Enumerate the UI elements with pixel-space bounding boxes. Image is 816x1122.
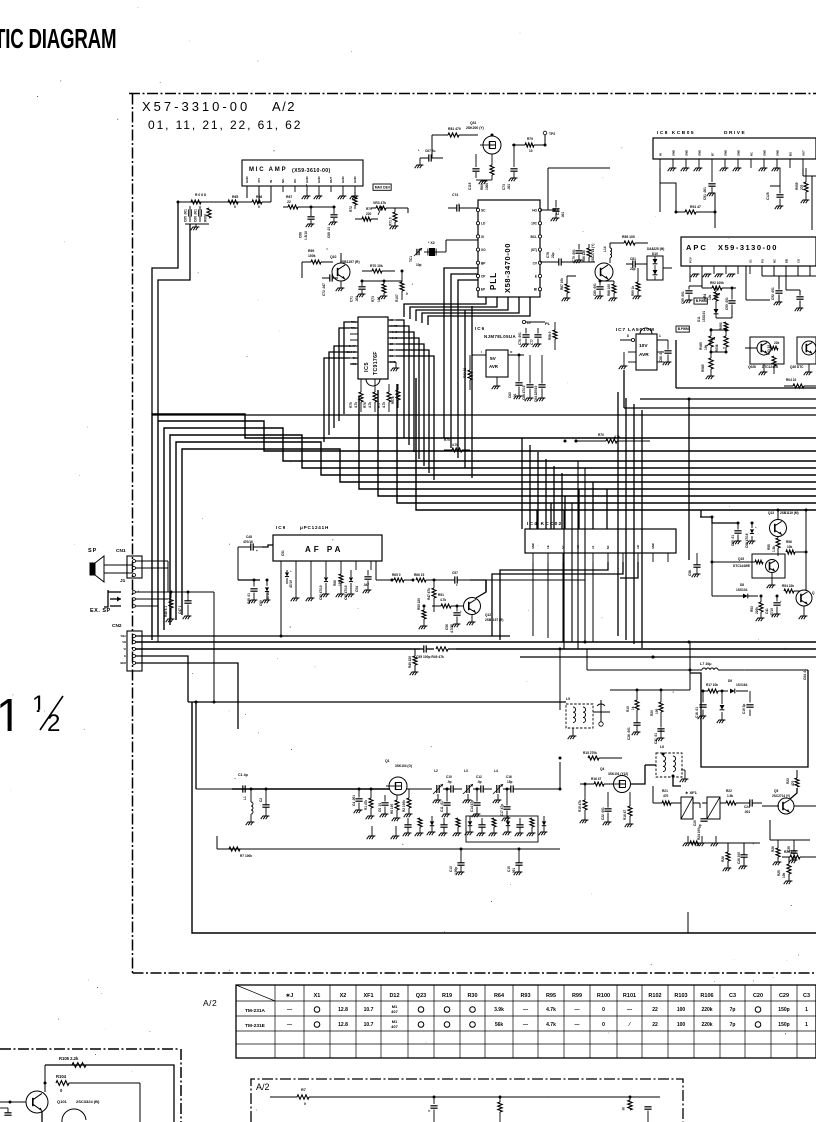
wire IC5 left fan 5: [324, 358, 350, 442]
svg-text:R26: R26: [771, 846, 775, 852]
ground: [354, 192, 356, 196]
svg-text:R75: R75: [349, 402, 353, 408]
svg-text:C64 .01: C64 .01: [803, 669, 807, 680]
svg-text:DTC124EK: DTC124EK: [762, 365, 779, 369]
svg-text:—: —: [287, 1007, 292, 1013]
svg-text:D11: D11: [697, 316, 701, 322]
CN2 pin VI: [133, 648, 136, 651]
wire CN1 out: [136, 560, 169, 562]
diode D9b: [720, 705, 725, 710]
svg-text:R95: R95: [546, 993, 556, 999]
wire IC4 drop dn 5: [592, 562, 594, 642]
svg-text:EN: EN: [353, 356, 357, 360]
svg-text:C55 100p R49 47k: C55 100p R49 47k: [416, 655, 444, 659]
svg-text:AFI: AFI: [636, 545, 640, 549]
wire bus line 8: [378, 390, 816, 496]
wire r26 rail stub: [777, 862, 779, 866]
wire IC7 output rail: [676, 387, 816, 389]
svg-text:C91 .001: C91 .001: [703, 187, 707, 200]
svg-text:3SK104 (O): 3SK104 (O): [395, 764, 412, 768]
svg-text:+: +: [460, 609, 462, 613]
svg-text:GND: GND: [697, 150, 701, 156]
ground: [735, 167, 742, 169]
AF PA pin: [370, 561, 372, 570]
svg-text:.001: .001: [561, 212, 565, 218]
svg-text:—: —: [523, 1007, 528, 1013]
svg-text:220k: 220k: [755, 607, 759, 614]
svg-text:R10: R10: [626, 706, 630, 712]
svg-text:3SK101 (Y12): 3SK101 (Y12): [608, 772, 628, 776]
svg-text:15p: 15p: [507, 780, 512, 784]
wire IC4 riser 2: [550, 503, 552, 529]
svg-text:1SS104: 1SS104: [736, 588, 748, 592]
APC pin 3: [713, 266, 715, 274]
svg-text:DATA: DATA: [349, 344, 356, 348]
svg-text:B7: B7: [710, 152, 714, 156]
wire Q15 base rail: [712, 561, 755, 563]
svg-text:C16: C16: [506, 775, 512, 779]
wire CN2 E: [136, 656, 189, 702]
svg-text:—: —: [575, 1022, 580, 1028]
svg-text:+: +: [290, 569, 292, 573]
ground: [523, 343, 530, 345]
IC5 pin DATA: [350, 345, 358, 347]
wire rf line: [232, 788, 390, 790]
wire IC5 fan 6: [396, 350, 429, 473]
svg-text:.9p: .9p: [447, 780, 452, 784]
svg-text:MIC AMP: MIC AMP: [249, 167, 287, 173]
svg-text:470: 470: [663, 794, 669, 798]
wire IC4 riser 4: [578, 489, 580, 529]
svg-text:R80: R80: [480, 184, 484, 190]
sub-board A/2 outline: [251, 1079, 683, 1122]
svg-text:DRIVE: DRIVE: [724, 130, 746, 136]
wire IC4 riser 6: [606, 489, 608, 529]
ground: [371, 826, 373, 836]
variant table: [236, 985, 816, 1058]
svg-text:R66: R66: [333, 580, 337, 586]
box sub rect: [466, 816, 538, 842]
svg-text:R19: R19: [442, 993, 452, 999]
svg-text:C1 4p: C1 4p: [238, 773, 249, 777]
svg-text:Q15: Q15: [738, 557, 744, 561]
small part 3: [430, 821, 434, 825]
wire Q31 drain: [491, 135, 493, 136]
svg-text:+: +: [755, 525, 757, 529]
svg-text:C68: C68: [299, 232, 303, 238]
wire IC4 riser 5: [592, 482, 594, 529]
svg-text:Q4: Q4: [600, 767, 604, 771]
svg-text:BP: BP: [481, 261, 486, 265]
svg-text:∗J: ∗J: [286, 993, 294, 999]
svg-text:L4: L4: [494, 769, 498, 773]
AF PA pin: [295, 561, 297, 570]
svg-text:SC: SC: [561, 545, 565, 549]
svg-text:0: 0: [234, 205, 236, 209]
IC5 pin VOLD: [388, 331, 396, 333]
wire R7 rail: [270, 1096, 297, 1098]
svg-text:XO: XO: [481, 248, 486, 252]
IC7 body: [636, 334, 657, 370]
svg-text:C56: C56: [445, 624, 449, 630]
CN2 pin BER: [133, 662, 136, 665]
svg-text:C12: C12: [476, 775, 482, 779]
CN2 pin E: [133, 655, 136, 658]
wire bus line 5: [176, 442, 816, 620]
wire pll drop 2: [451, 274, 478, 448]
svg-text:C71: C71: [350, 296, 354, 302]
IC7 input pin: [631, 338, 634, 341]
svg-text:D12: D12: [389, 993, 399, 999]
svg-text:C73: C73: [502, 184, 506, 190]
svg-text:R08 0: R08 0: [548, 331, 552, 340]
ground Q15: [771, 573, 773, 585]
wire IC5 left fan 2: [339, 328, 350, 421]
wire bus to Q13 base: [700, 517, 738, 523]
svg-text:IN: IN: [658, 153, 662, 156]
wire CN2 VBA: [136, 635, 511, 637]
svg-text:C75: C75: [556, 209, 560, 215]
ground: [476, 179, 492, 181]
svg-text:8: 8: [627, 334, 629, 338]
IC5 pin MUTE: [388, 325, 396, 327]
svg-text:10k: 10k: [708, 294, 712, 300]
transistor Q12 2SB1157 (R): [464, 598, 481, 615]
svg-text:R54 22k: R54 22k: [782, 584, 794, 588]
svg-text:TM-231A: TM-231A: [245, 1008, 266, 1014]
table cell: [444, 1007, 450, 1013]
wire bus line 2: [158, 421, 816, 635]
svg-text:0: 0: [304, 1102, 306, 1106]
svg-text:0: 0: [723, 346, 725, 350]
svg-text:AVR: AVR: [639, 352, 649, 358]
wire rf out right: [794, 805, 816, 807]
wire APC PCV: [689, 274, 691, 282]
svg-text:1: 1: [805, 1022, 808, 1028]
wire VR loop: [716, 317, 732, 319]
svg-text:R106: R106: [700, 993, 713, 999]
svg-text:C66 .001: C66 .001: [194, 209, 198, 222]
svg-text:Q10: Q10: [330, 255, 337, 259]
svg-text:1: 1: [32, 691, 45, 718]
small part 8: [492, 818, 496, 827]
svg-text:10C: 10C: [531, 222, 538, 226]
PLL pin (ST): [538, 248, 541, 251]
ground: [670, 167, 677, 169]
svg-text:10.7: 10.7: [364, 1022, 374, 1028]
svg-text:R20: R20: [650, 710, 654, 716]
wire J1 wiring: [136, 591, 215, 593]
svg-text:X1: X1: [314, 993, 321, 999]
wire mic input: [178, 201, 242, 203]
svg-text:C119: C119: [468, 182, 472, 190]
svg-text:R25: R25: [777, 870, 781, 876]
wire x712 rail: [711, 517, 713, 596]
svg-text:VBA: VBA: [121, 634, 127, 638]
svg-text:R04 22: R04 22: [786, 378, 797, 382]
wire IC4 drop 5: [553, 466, 555, 529]
svg-text:C47 1: C47 1: [178, 605, 182, 614]
wire out y580 right: [470, 579, 585, 581]
ground IC7: [623, 352, 625, 366]
svg-text:407: 407: [391, 1009, 398, 1014]
svg-text:R65 0: R65 0: [392, 573, 401, 577]
svg-text:C14 47p: C14 47p: [470, 800, 474, 812]
ground row: [687, 836, 689, 843]
svg-text:LD: LD: [481, 222, 486, 226]
svg-text:C3: C3: [729, 993, 736, 999]
svg-text:C50 47/10: C50 47/10: [344, 585, 348, 600]
svg-text:—: —: [523, 1022, 528, 1028]
wire bundle left-mid verticals: [577, 461, 579, 649]
svg-text:R26 470: R26 470: [784, 850, 796, 854]
svg-text:NC: NC: [606, 545, 610, 549]
IC7 pins left stubs: [628, 351, 636, 353]
wire rail y415: [152, 414, 816, 416]
svg-text:R03 22: R03 22: [767, 345, 771, 355]
IC5 pin VDD: [350, 363, 358, 365]
svg-text:TP2: TP2: [549, 132, 555, 136]
wire rail stub up: [216, 836, 218, 849]
ground: [340, 281, 342, 288]
ground IC6: [496, 377, 498, 386]
svg-text:C72 .047: C72 .047: [322, 283, 326, 296]
CN1 pin: [133, 567, 136, 570]
wire CN2 BER: [136, 663, 239, 729]
svg-text:R24 100: R24 100: [697, 828, 701, 840]
AF PA pin: [310, 561, 312, 570]
svg-text:2SC2714 (Y): 2SC2714 (Y): [772, 794, 790, 798]
svg-text:+: +: [780, 599, 782, 603]
svg-text:R28: R28: [721, 856, 725, 862]
svg-text:D8: D8: [740, 583, 744, 587]
svg-text:47/10: 47/10: [289, 580, 293, 588]
CN1 pin: [133, 560, 136, 563]
svg-text:GND: GND: [736, 150, 740, 156]
svg-text:TM-231E: TM-231E: [245, 1023, 266, 1029]
svg-text:2SK200 (Y): 2SK200 (Y): [466, 126, 484, 130]
wire IC7 out down: [675, 340, 677, 388]
wire antenna line corner: [195, 702, 197, 789]
wire afpa out: [375, 561, 377, 580]
svg-text:4.7k: 4.7k: [452, 443, 458, 447]
svg-text:R107: R107: [395, 294, 399, 302]
svg-text:R1 47k: R1 47k: [364, 800, 368, 810]
svg-text:O1: O1: [748, 259, 752, 263]
svg-text:NC: NC: [749, 152, 753, 156]
svg-text:PLL: PLL: [489, 272, 498, 290]
wire IC8 pin1 down: [659, 168, 661, 212]
CN1 pin: [133, 574, 136, 577]
svg-text:C20: C20: [693, 820, 697, 826]
svg-text:1SS101: 1SS101: [702, 311, 706, 322]
svg-text:R038: R038: [715, 344, 719, 352]
wire Q101 collector: [44, 1065, 46, 1092]
table cell: [755, 1007, 761, 1013]
svg-text:R23: R23: [786, 778, 790, 784]
wire rail y702: [188, 701, 566, 703]
series C55 R49 on VI rail: [420, 643, 456, 653]
svg-text:C60 47/16: C60 47/16: [745, 533, 749, 548]
wire L7 loop: [690, 670, 808, 767]
svg-text:10p: 10p: [416, 263, 422, 267]
svg-text:R70 10k: R70 10k: [370, 264, 383, 268]
IC4 pin 10: [667, 553, 669, 562]
svg-text:APC: APC: [686, 243, 708, 252]
svg-text:C58: C58: [688, 570, 692, 576]
svg-text:4.7k: 4.7k: [440, 598, 446, 602]
svg-text:220k: 220k: [701, 1007, 712, 1013]
svg-text:R17 10k: R17 10k: [706, 683, 718, 687]
svg-text:R56: R56: [786, 540, 792, 544]
wire IC5 fan 1: [396, 320, 404, 438]
svg-text:2SB1119 (M): 2SB1119 (M): [780, 511, 799, 515]
svg-text:R81 470: R81 470: [448, 127, 461, 131]
PLL pin XI: [476, 235, 479, 238]
wire IC4 drop dn 4: [577, 562, 579, 642]
wire D10: [645, 263, 647, 265]
svg-text:C77: C77: [530, 339, 534, 345]
svg-text:GND: GND: [390, 360, 396, 364]
wire Q101 emitter: [41, 1111, 43, 1122]
wire afpa in: [262, 545, 273, 547]
IC5 pin I/O: [388, 319, 396, 321]
svg-text:R87 10k: R87 10k: [560, 278, 564, 290]
PLL pin BP: [476, 261, 479, 264]
svg-text:R73: R73: [371, 296, 375, 302]
resistor stub 3: [629, 1096, 632, 1099]
wire: [238, 201, 252, 203]
svg-text:C24: C24: [744, 805, 750, 809]
svg-text:DTC144WE: DTC144WE: [733, 564, 750, 568]
PLL pin CV: [538, 261, 541, 264]
svg-text:R40 220: R40 220: [408, 656, 412, 668]
svg-text:L5: L5: [566, 697, 570, 701]
svg-text:IC9: IC9: [276, 525, 286, 530]
capacitor C93: [796, 296, 803, 298]
svg-text:DA8225 (M): DA8225 (M): [647, 247, 664, 251]
svg-text:0: 0: [406, 292, 408, 296]
PLL pin LD: [476, 222, 479, 225]
small part 12: [542, 821, 546, 825]
svg-text:MAX DEV: MAX DEV: [375, 185, 391, 189]
wire IC5 fan 3: [396, 332, 414, 452]
PLL pin XO: [476, 248, 479, 251]
wire APC right pins rail: [762, 275, 816, 277]
ground: [683, 167, 690, 169]
wire X2 net: [445, 240, 447, 252]
svg-text:R059: R059: [795, 182, 799, 190]
PLL pin 10C: [538, 222, 541, 225]
svg-text:12.8: 12.8: [338, 1007, 348, 1013]
wire rail y408: [624, 407, 816, 409]
svg-text:C29: C29: [779, 993, 789, 999]
svg-text:—: —: [627, 1007, 632, 1013]
svg-text:TIC DIAGRAM: TIC DIAGRAM: [0, 23, 116, 53]
svg-text:0: 0: [602, 1007, 605, 1013]
svg-text:IC4 KCC02: IC4 KCC02: [527, 521, 562, 527]
svg-text:GND: GND: [305, 176, 309, 184]
wire IC5 left fan 3: [334, 346, 350, 428]
transistor Q15 DTC144WE box: [752, 554, 785, 578]
wire C48 net: [237, 547, 239, 580]
svg-text:Q12: Q12: [485, 613, 491, 617]
svg-text:R50 220: R50 220: [417, 598, 421, 610]
wire PLL bottom 5: [428, 297, 530, 325]
resistor stub 2: [499, 1096, 502, 1099]
svg-text:L7 10μ: L7 10μ: [700, 662, 711, 666]
svg-text:IC7 LA5010M: IC7 LA5010M: [616, 327, 655, 333]
svg-text:L3: L3: [464, 769, 468, 773]
svg-text:L6: L6: [660, 745, 664, 749]
svg-text:NC: NC: [281, 178, 285, 183]
wire right drop 2: [625, 398, 627, 640]
svg-text:R47 47k: R47 47k: [427, 588, 431, 600]
wire right drop 4: [641, 410, 643, 648]
svg-text:56k: 56k: [495, 1022, 504, 1028]
wire L6 top: [645, 764, 656, 766]
svg-text:R89 100: R89 100: [622, 235, 635, 239]
svg-text:R078: R078: [391, 396, 395, 404]
wire q5: [790, 788, 797, 799]
svg-text:22k: 22k: [774, 341, 780, 345]
svg-text:XF1: XF1: [363, 993, 373, 999]
svg-text:C19 3p: C19 3p: [742, 704, 746, 714]
svg-text:Q101: Q101: [57, 1099, 68, 1104]
svg-text:R105 2.2k: R105 2.2k: [59, 1056, 79, 1061]
svg-text:O1: O1: [390, 354, 394, 358]
svg-text:R085: R085: [701, 364, 705, 372]
svg-text:100: 100: [677, 1022, 686, 1028]
ground Q12: [471, 615, 473, 622]
PLL pin BI: [538, 288, 541, 291]
svg-text:I: I: [481, 350, 482, 354]
svg-text:EP: EP: [481, 288, 486, 292]
svg-text:A1: A1: [591, 545, 595, 549]
wire Q33 emitter: [567, 275, 576, 277]
svg-text:TRM: TRM: [350, 326, 357, 330]
wire q31 gate feed: [431, 135, 433, 158]
svg-text:Q: Q: [812, 591, 815, 595]
svg-text:C20: C20: [753, 993, 763, 999]
svg-text:OUT: OUT: [329, 177, 333, 184]
svg-text:PL: PL: [545, 321, 551, 326]
wire vertical x690: [689, 642, 691, 689]
svg-text:L2: L2: [434, 769, 438, 773]
wire bus line 10: [416, 378, 816, 510]
svg-text:VI: VI: [124, 647, 127, 651]
capacitor C55 100p: [423, 645, 425, 652]
svg-text:R69: R69: [308, 249, 314, 253]
wire HO to top: [547, 168, 549, 210]
junction dots on rails: [280, 635, 283, 638]
svg-text:BO: BO: [788, 151, 792, 156]
AF PA pin: [340, 561, 342, 570]
svg-text:X59-3130-00: X59-3130-00: [718, 243, 778, 252]
wire L5 to grid: [593, 711, 610, 713]
IC7 pins right: [657, 339, 668, 341]
APC pin 11: [809, 266, 811, 274]
svg-text:R64: R64: [494, 993, 505, 999]
wire 5V AVR in/out: [472, 354, 486, 356]
svg-text:C48: C48: [246, 535, 252, 539]
svg-text:R55: R55: [767, 544, 771, 550]
svg-text:150p: 150p: [778, 1022, 789, 1028]
wire pll drop 5: [471, 306, 473, 478]
svg-text:R99: R99: [572, 993, 582, 999]
svg-text:C65 .001: C65 .001: [184, 209, 188, 222]
transistor Q16 2SB: [796, 590, 812, 606]
